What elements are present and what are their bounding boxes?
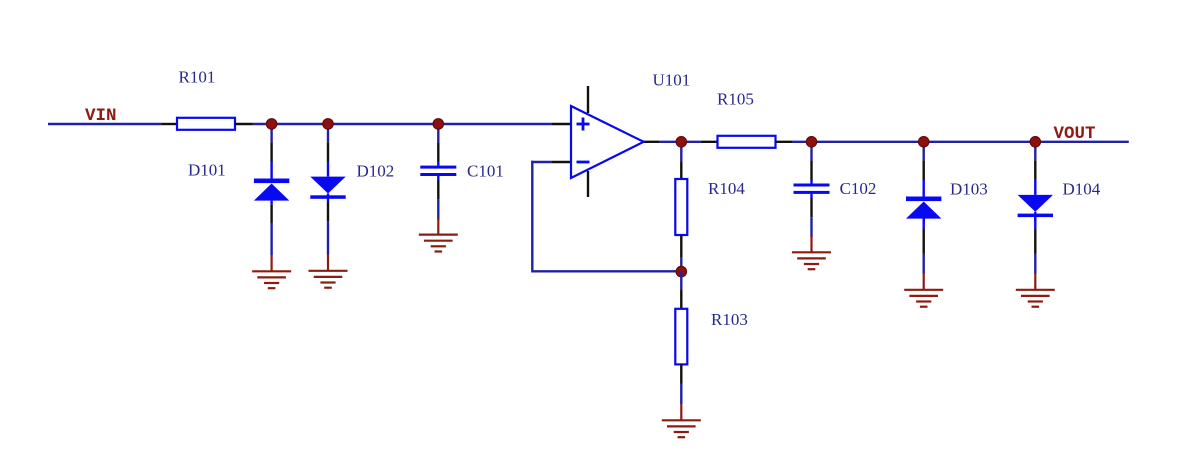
wire stub node B to D102 pin	[327, 124, 329, 142]
label D102	[357, 162, 395, 181]
wire R103 to ground	[680, 384, 682, 405]
resistor R101	[162, 118, 253, 130]
pin D104 top (black)	[1034, 160, 1036, 180]
ground C102	[792, 236, 831, 269]
diode D102	[310, 162, 345, 203]
resistor R103	[675, 309, 687, 365]
pin C102 bottom (black)	[810, 198, 812, 217]
label R104	[708, 179, 745, 198]
wire feedback vertical	[531, 161, 533, 273]
pin op-amp V+ power stub (black)	[587, 86, 589, 113]
label D104	[1063, 180, 1101, 199]
wire D102 to ground	[327, 222, 329, 255]
wire stub node A to D101 pin	[270, 124, 272, 142]
wire node E to R103 pin	[680, 272, 682, 290]
wire from R101 to op-amp	[253, 123, 553, 125]
wire op-amp output to node D	[659, 141, 701, 143]
wire R105 to VOUT end	[792, 141, 1129, 143]
pin R104 top (black)	[680, 162, 682, 179]
pin C101 top (black)	[437, 143, 439, 162]
svg-text:C102: C102	[840, 179, 877, 198]
junction node D (op-amp output)	[676, 137, 687, 148]
label C102	[840, 179, 877, 198]
svg-text:R105: R105	[717, 90, 754, 109]
svg-text:U101: U101	[653, 71, 691, 90]
wire stub node D to R104 pin	[680, 142, 682, 162]
resistor R105	[701, 136, 792, 148]
svg-text:D102: D102	[357, 162, 395, 181]
wire VIN input segment	[48, 123, 162, 125]
junction node B	[323, 119, 334, 130]
wire stub node C to C101 pin	[437, 124, 439, 143]
pin R103 top (black)	[680, 290, 682, 309]
pin R103 bottom (black)	[680, 364, 682, 383]
capacitor C101	[420, 161, 456, 181]
capacitor C102	[794, 179, 830, 199]
svg-text:VIN: VIN	[85, 106, 117, 126]
svg-text:D104: D104	[1063, 180, 1101, 199]
ground D102	[309, 254, 348, 287]
wire D103 to ground	[923, 254, 925, 274]
net label VOUT	[1054, 124, 1096, 144]
ground R103	[662, 404, 701, 437]
pin D102 top (black)	[327, 142, 329, 161]
label C101	[467, 162, 504, 181]
junction node A	[266, 119, 277, 130]
junction node E (feedback)	[676, 266, 687, 277]
pin C101 bottom (black)	[437, 180, 439, 199]
svg-text:R103: R103	[711, 310, 748, 329]
pin C102 top (black)	[810, 161, 812, 180]
pin D103 top (black)	[923, 160, 925, 179]
svg-text:VOUT: VOUT	[1054, 124, 1096, 144]
junction node C	[433, 119, 444, 130]
pin D102 bottom (black)	[327, 203, 329, 222]
diode D103	[906, 180, 941, 230]
label D103	[950, 180, 988, 199]
junction node G	[918, 137, 929, 148]
ground C101	[419, 218, 458, 251]
label R103	[711, 310, 748, 329]
pin D104 bottom (black)	[1034, 230, 1036, 254]
wire C102 to ground	[810, 217, 812, 237]
label R105	[717, 90, 754, 109]
pin R104 bottom (black)	[680, 235, 682, 257]
op-amp U101	[571, 106, 644, 178]
pin op-amp +input (black)	[552, 123, 571, 125]
pin op-amp output (black)	[644, 141, 659, 143]
svg-text:R104: R104	[708, 179, 745, 198]
ground D103	[904, 273, 943, 306]
svg-text:R101: R101	[179, 68, 216, 87]
wire D101 to ground	[270, 224, 272, 255]
wire C101 to ground	[437, 199, 439, 219]
pin op-amp -input (black)	[552, 161, 571, 163]
svg-text:D103: D103	[950, 180, 988, 199]
pin op-amp V- power stub (black)	[587, 171, 589, 197]
pin D101 top (black)	[270, 142, 272, 161]
wire stub node F to C102 pin	[810, 142, 812, 161]
svg-text:D101: D101	[188, 161, 226, 180]
net label VIN	[85, 106, 117, 126]
wire stub node H to D104 pin	[1034, 142, 1036, 161]
wire D104 to ground	[1034, 254, 1036, 274]
diode D101	[254, 162, 289, 205]
junction node H	[1030, 137, 1041, 148]
wire feedback horizontal bottom	[532, 270, 681, 272]
wire R104 to node E	[680, 257, 682, 272]
wire feedback horizontal top to -input	[531, 161, 552, 163]
junction node F	[806, 137, 817, 148]
pin D101 bottom (black)	[270, 205, 272, 224]
pin D103 bottom (black)	[923, 230, 925, 254]
ground D101	[252, 255, 291, 288]
label R101	[179, 68, 216, 87]
wire stub node G to D103 pin	[923, 142, 925, 161]
ground D104	[1016, 273, 1055, 306]
label D101	[188, 161, 226, 180]
svg-text:C101: C101	[467, 162, 504, 181]
diode D104	[1018, 180, 1053, 230]
resistor R104	[675, 179, 687, 235]
label U101	[653, 71, 691, 90]
